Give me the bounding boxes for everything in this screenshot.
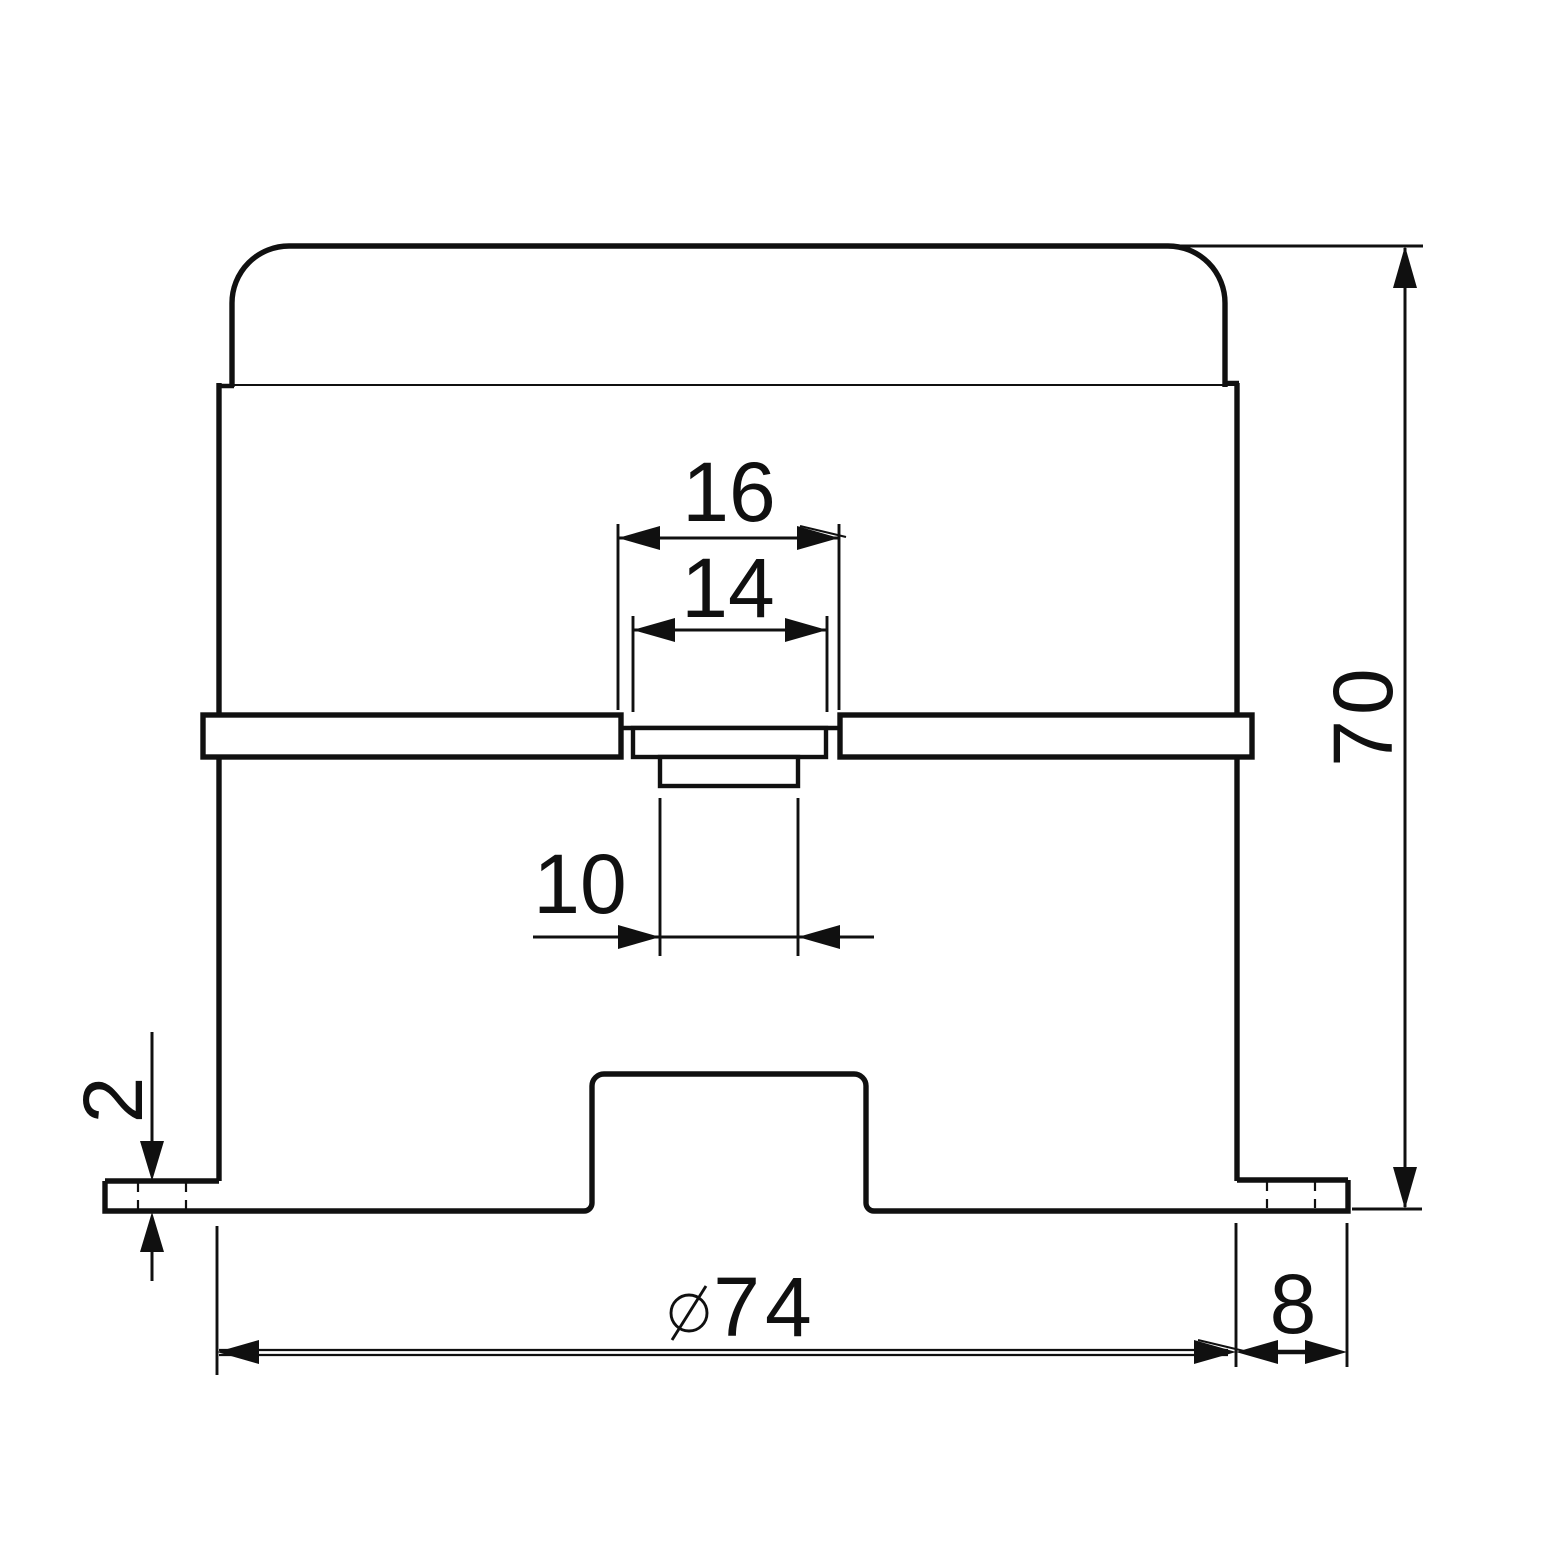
- svg-text:8: 8: [1270, 1257, 1317, 1351]
- svg-text:74: 74: [713, 1260, 816, 1354]
- svg-text:2: 2: [66, 1077, 160, 1124]
- svg-text:10: 10: [533, 837, 626, 931]
- svg-text:14: 14: [681, 541, 774, 635]
- svg-text:70: 70: [1316, 663, 1410, 766]
- svg-text:16: 16: [682, 445, 775, 539]
